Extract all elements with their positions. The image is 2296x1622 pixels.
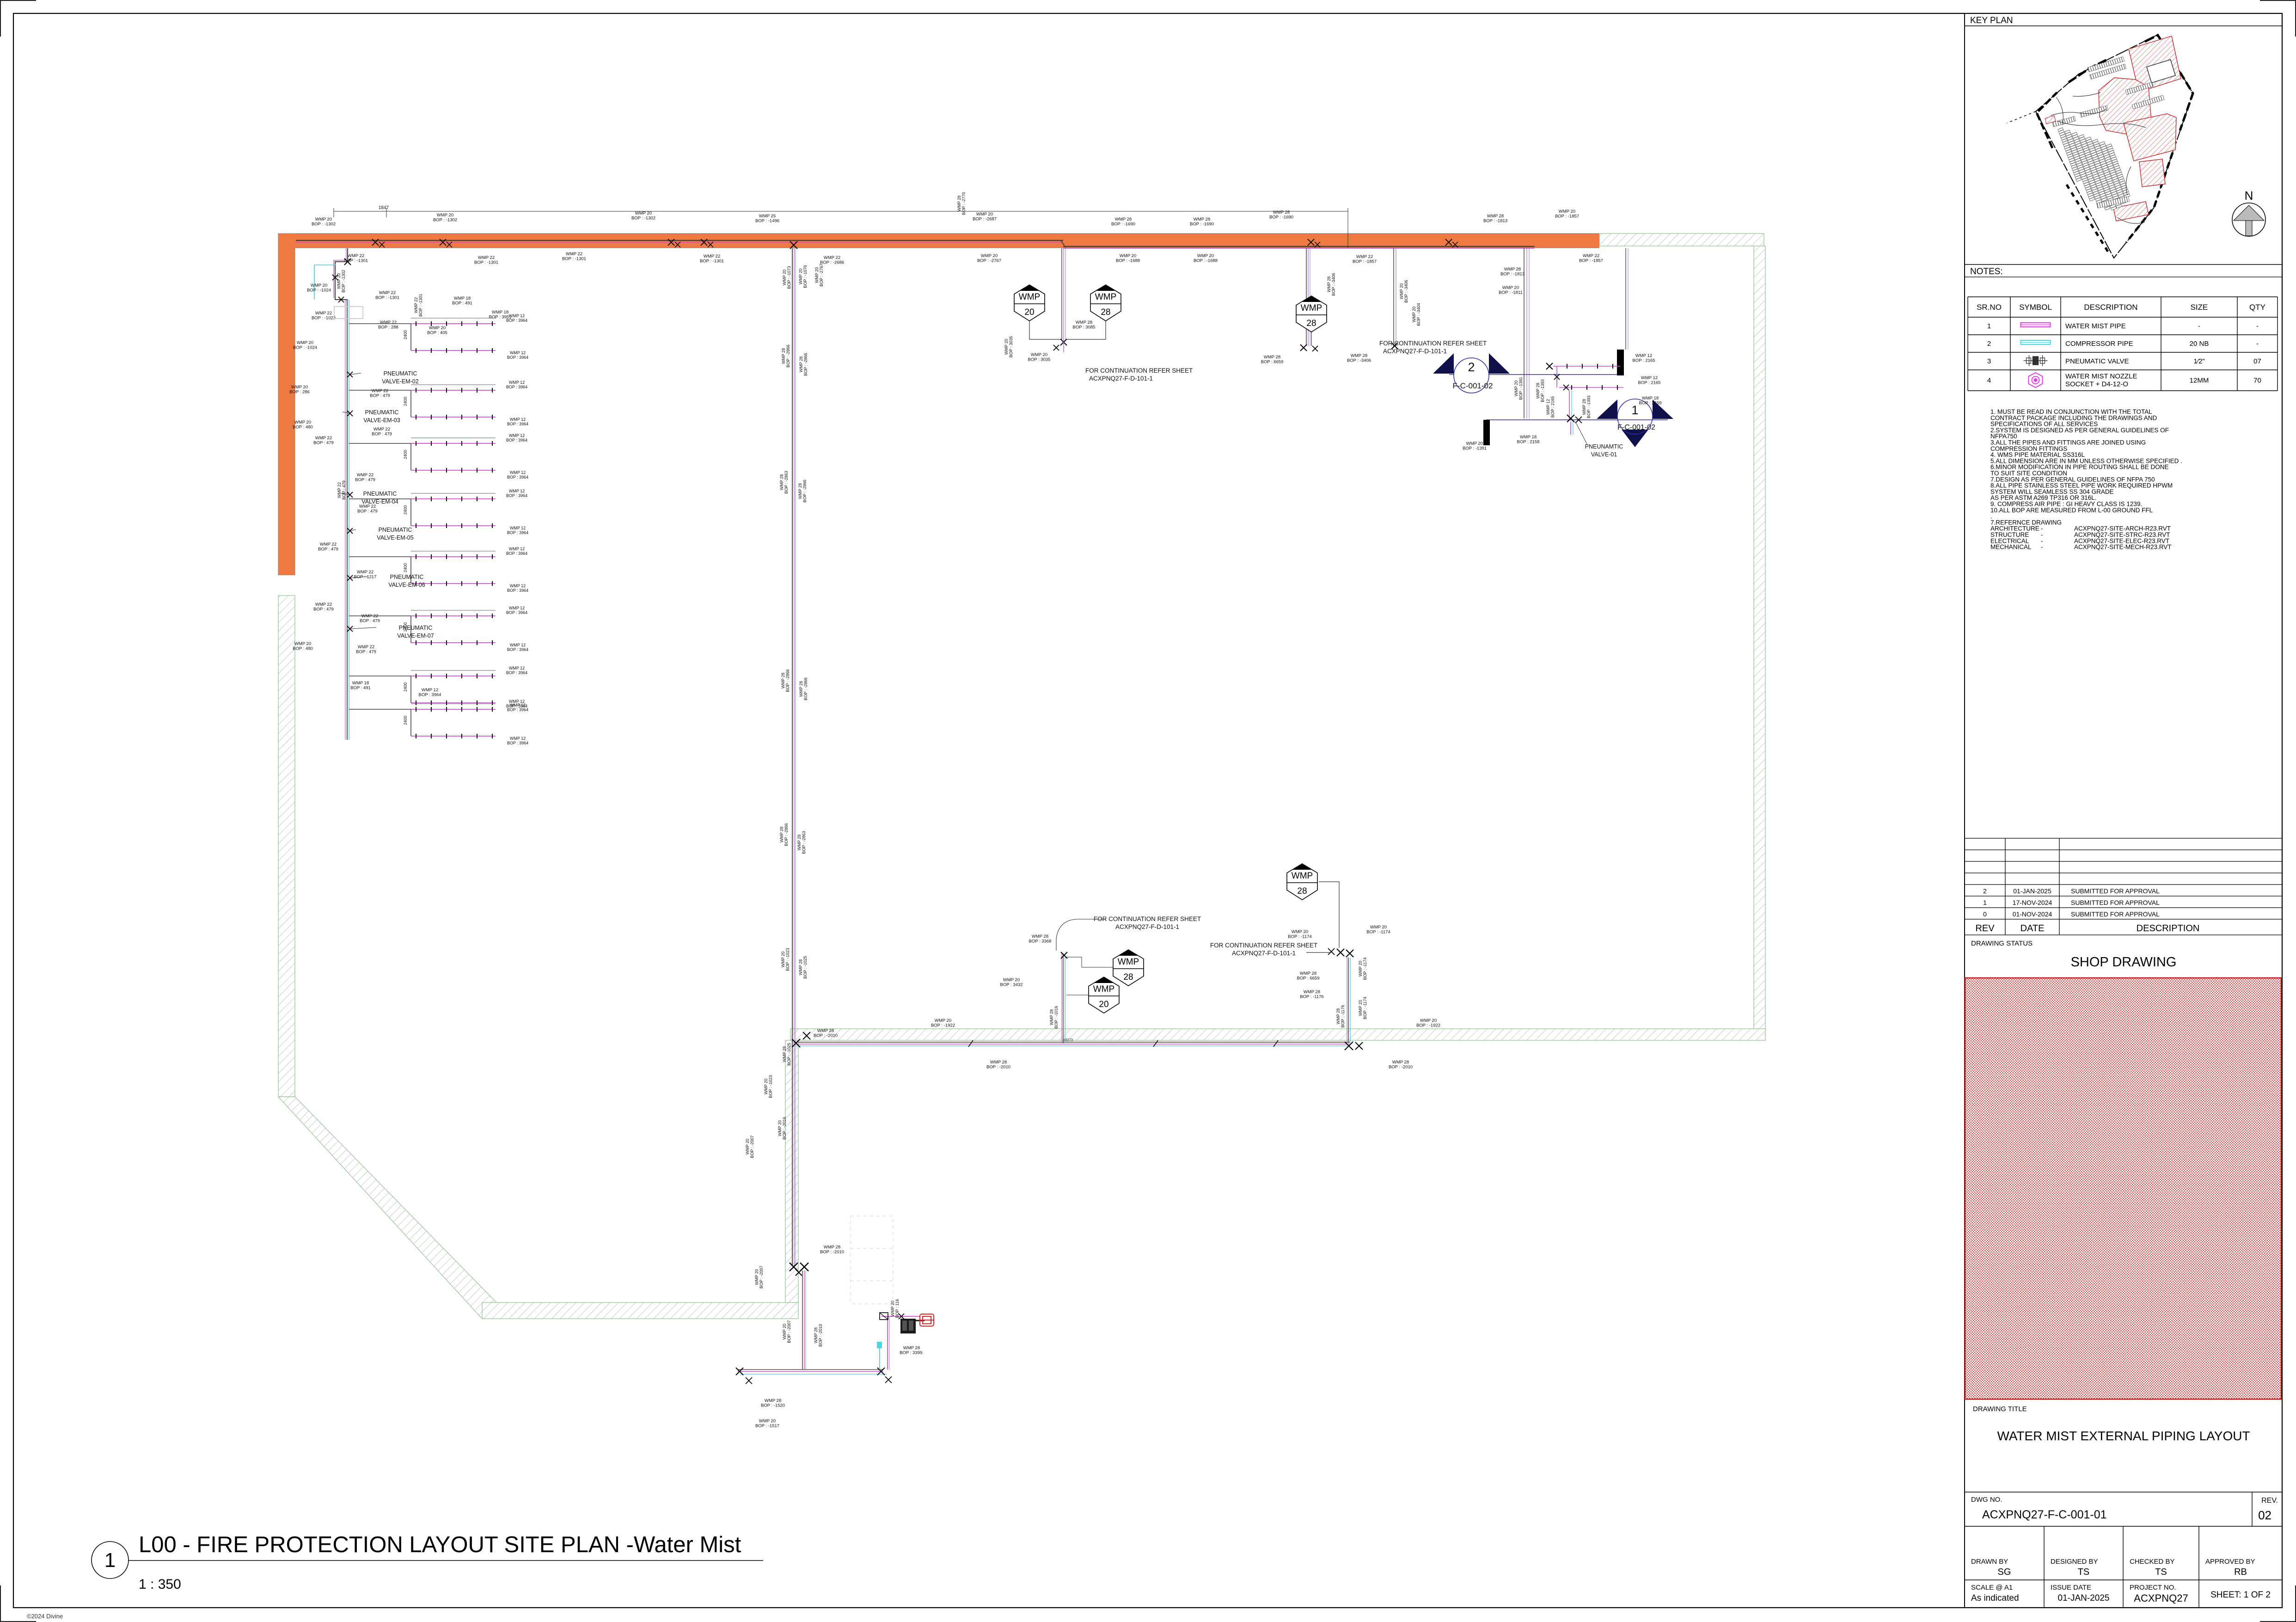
riser drop to continuation (top-center) [1061,248,1062,339]
svg-text:PNEUMATIC: PNEUMATIC [379,527,412,533]
nozzle branch cluster near valve-01 [1553,366,1620,367]
svg-text:12MM: 12MM [2190,377,2209,385]
svg-text:WMP 12BOP : 3964: WMP 12BOP : 3964 [419,688,441,698]
svg-text:FOR CONTINUATION REFER SHEET: FOR CONTINUATION REFER SHEET [1379,340,1487,347]
svg-text:ACXPNQ27: ACXPNQ27 [2134,1592,2188,1604]
corner junction piping top-left [335,248,348,300]
svg-text:MECHANICAL: MECHANICAL [1990,544,2032,551]
svg-text:WMP 22BOP : 479: WMP 22BOP : 479 [313,602,334,612]
key plan small red bits left [2045,116,2056,124]
key plan building right-mid [2124,114,2176,161]
svg-text:2: 2 [1468,360,1475,374]
junction at bottom of long riser [790,1263,798,1271]
svg-text:DATE: DATE [2020,923,2045,934]
svg-text:1 : 350: 1 : 350 [139,1577,181,1592]
svg-text:4: 4 [1987,377,1991,385]
svg-text:FOR CONTINUATION REFER SHEET: FOR CONTINUATION REFER SHEET [1094,915,1201,922]
svg-text:WMP 28BOP : 6659: WMP 28BOP : 6659 [1261,355,1284,365]
view title circle 1 [92,1542,129,1579]
svg-text:SOCKET + D4-12-O: SOCKET + D4-12-O [2065,381,2128,388]
compressor pipe symbol [2021,340,2051,344]
riser to continuation junction [1348,958,1349,1043]
WMP 20 hexagon (top) [1029,321,1061,339]
site boundary wall left (hatched) [278,596,295,1097]
key plan building central [2099,78,2151,136]
pump skid (red) [920,1314,934,1326]
svg-text:As indicated: As indicated [1971,1593,2019,1603]
svg-text:02: 02 [2258,1508,2272,1522]
dwg no row [1965,1492,2282,1493]
svg-text:WMP 28BOP : 3368: WMP 28BOP : 3368 [1029,934,1052,944]
water mist pipe symbol [2021,323,2051,327]
svg-text:©2024 Divine: ©2024 Divine [27,1613,63,1620]
svg-text:TS: TS [2155,1567,2167,1577]
svg-text:REV: REV [1975,923,1995,934]
svg-text:WMP 22BOP : 479: WMP 22BOP : 479 [356,645,376,655]
compressor unit (black) [900,1319,916,1333]
svg-text:DRAWING TITLE: DRAWING TITLE [1973,1405,2027,1413]
building wall top (hatched) [1599,233,1764,246]
svg-text:CHECKED BY: CHECKED BY [2130,1558,2175,1566]
svg-text:-: - [2198,322,2200,330]
svg-text:DESIGNED BY: DESIGNED BY [2051,1558,2098,1566]
svg-text:WMP 20BOP : -1174: WMP 20BOP : -1174 [1366,925,1390,935]
svg-text:WMP 20BOP : -1174: WMP 20BOP : -1174 [1358,997,1367,1020]
pump feed horizontal [882,1316,920,1317]
svg-text:ISSUE DATE: ISSUE DATE [2051,1584,2091,1591]
svg-text:2400: 2400 [403,563,408,572]
svg-text:-: - [2041,544,2043,551]
svg-text:2400: 2400 [403,450,408,459]
svg-text:WMP 22BOP : 479: WMP 22BOP : 479 [360,614,380,624]
long riser drop at grid 3300 [1524,248,1525,418]
svg-text:WMP 22BOP : 1217: WMP 22BOP : 1217 [354,570,377,580]
svg-text:WMP 12BOP : 2165: WMP 12BOP : 2165 [1633,353,1655,363]
svg-text:1: 1 [104,1549,116,1572]
svg-text:WMP 12BOP : 3964: WMP 12BOP : 3964 [507,736,528,745]
orange boundary wall band (left) [278,233,295,575]
svg-text:WMP: WMP [1095,292,1116,302]
svg-text:WMP 22BOP : 479: WMP 22BOP : 479 [355,473,375,483]
svg-text:WMP 22BOP : 479: WMP 22BOP : 479 [372,427,392,437]
NOTES header [1965,264,2282,265]
svg-text:WMP: WMP [1019,292,1040,302]
svg-text:PNEUMATIC: PNEUMATIC [363,491,397,497]
svg-text:20 NB: 20 NB [2190,340,2209,348]
svg-text:WATER MIST EXTERNAL PIPING LAY: WATER MIST EXTERNAL PIPING LAYOUT [1997,1429,2250,1443]
svg-text:WMP 12BOP : 3964: WMP 12BOP : 3964 [506,699,527,708]
compressed air pipe (cyan) w/ compressor box [877,1342,882,1348]
svg-text:PNEUMATIC: PNEUMATIC [399,625,433,631]
svg-text:KEY PLAN: KEY PLAN [1970,16,2013,25]
svg-text:1⁄2": 1⁄2" [2193,357,2205,365]
svg-text:WMP 28BOP : 3085: WMP 28BOP : 3085 [1073,320,1096,330]
svg-text:DESCRIPTION: DESCRIPTION [2137,923,2200,934]
svg-text:SCALE @ A1: SCALE @ A1 [1971,1584,2013,1591]
svg-text:VALVE-EM-02: VALVE-EM-02 [382,378,418,385]
svg-text:ACXPNQ27-F-D-101-1: ACXPNQ27-F-D-101-1 [1383,348,1447,355]
svg-text:WMP 22BOP : 479: WMP 22BOP : 479 [337,480,346,499]
riser up to pump skid [887,1316,888,1370]
svg-text:WMP 20BOP : 3035: WMP 20BOP : 3035 [1004,336,1013,357]
svg-text:WMP 20BOP : 480: WMP 20BOP : 480 [293,641,313,651]
pump room ghost outline [851,1216,893,1304]
svg-text:REV.: REV. [2261,1497,2278,1505]
svg-text:WMP 12BOP : 3964: WMP 12BOP : 3964 [507,350,528,360]
svg-text:01-JAN-2025: 01-JAN-2025 [2058,1593,2110,1603]
symbol table [1968,297,2278,391]
north arrow [2232,203,2265,236]
svg-text:-: - [2256,322,2259,330]
site boundary wall bottom-left (hatched) [482,1303,798,1319]
dimension ticks on bottom pipe [968,1040,973,1047]
svg-text:WMP 18BOP : 2159: WMP 18BOP : 2159 [1639,396,1662,406]
main left riser pipes [347,300,348,740]
svg-text:SHOP DRAWING: SHOP DRAWING [2071,955,2177,970]
orange boundary wall band (top) [278,233,1599,248]
svg-text:38073: 38073 [1063,1038,1073,1042]
svg-text:RB: RB [2234,1567,2247,1577]
svg-text:WMP 12BOP : 3964: WMP 12BOP : 3964 [507,470,528,479]
svg-text:WMP: WMP [1301,303,1322,313]
svg-text:2400: 2400 [403,505,408,515]
svg-text:PNEUMATIC: PNEUMATIC [365,409,399,416]
svg-text:WMP 12BOP : 3964: WMP 12BOP : 3964 [507,417,528,426]
svg-text:01-NOV-2024: 01-NOV-2024 [2013,910,2052,918]
svg-text:DRAWING STATUS: DRAWING STATUS [1971,940,2033,947]
leader to WMP 28 hexagon (bottom) [1319,882,1339,948]
water mist nozzle symbol [2029,373,2043,387]
svg-text:VALVE-EM-07: VALVE-EM-07 [397,633,434,639]
svg-text:VALVE-EM-06: VALVE-EM-06 [388,582,425,588]
svg-text:WMP 22BOP : 479: WMP 22BOP : 479 [313,436,334,446]
WMP 28 hexagon (top) [1067,321,1106,339]
svg-text:WMP 20BOP : 3035: WMP 20BOP : 3035 [1028,352,1051,362]
WMP 28 hexagon (top-right) [1311,332,1312,346]
svg-text:APPROVED BY: APPROVED BY [2205,1558,2255,1566]
svg-text:QTY: QTY [2249,303,2265,312]
riser drop (top-right) [1306,248,1307,346]
svg-text:ACXPNQ27-SITE-MECH-R23.RVT: ACXPNQ27-SITE-MECH-R23.RVT [2074,544,2172,551]
svg-text:WATER MIST NOZZLE: WATER MIST NOZZLE [2065,373,2137,381]
section flag 2 / F-C-001-02 [1449,374,1617,375]
svg-text:WMP 12BOP : 3964: WMP 12BOP : 3964 [506,606,527,615]
svg-text:PNEUMATIC: PNEUMATIC [390,574,424,580]
svg-text:WMP 20BOP : 3432: WMP 20BOP : 3432 [1000,977,1023,988]
svg-text:2400: 2400 [403,330,408,339]
svg-text:WMP 22BOP : 479: WMP 22BOP : 479 [357,504,378,514]
svg-text:28: 28 [1123,972,1133,982]
svg-text:WMP 20BOP : 116: WMP 20BOP : 116 [890,1299,900,1318]
site boundary wall diagonal (hatched) [278,1097,497,1319]
horizontal pipe in pump room [738,1369,883,1370]
pipe elbow/union fittings on top main [372,239,379,246]
svg-text:ACXPNQ27-F-D-101-1: ACXPNQ27-F-D-101-1 [1232,950,1296,957]
key plan building small lower [2139,159,2165,187]
svg-text:ACXPNQ27-F-D-101-1: ACXPNQ27-F-D-101-1 [1089,375,1153,382]
svg-text:WMP 12BOP : 3964: WMP 12BOP : 3964 [506,380,527,389]
dimension line above wall [334,208,1348,248]
corner crop marks [0,0,36,37]
svg-text:-: - [2256,340,2259,348]
revision table [1965,838,2282,935]
svg-text:WMP 12BOP : 3964: WMP 12BOP : 3964 [507,584,528,593]
svg-text:WMP 12BOP : 3964: WMP 12BOP : 3964 [507,643,528,652]
building wall bottom (hatched) [790,1029,1765,1040]
water mist main pipe WMP along top wall [296,240,1063,241]
building wall right (hatched) [1754,246,1765,1040]
key plan internal roads [2051,92,2146,223]
KEY PLAN header [1965,25,2282,26]
key plan building bottom bar [2113,202,2149,221]
red stippled status stamp area [1965,978,2281,1399]
svg-text:SG: SG [1998,1567,2011,1577]
svg-text:DWG NO.: DWG NO. [1971,1496,2002,1504]
site boundary wall vertical connector (hatched) [785,1040,798,1303]
svg-text:WATER MIST PIPE: WATER MIST PIPE [2065,322,2126,330]
svg-text:70: 70 [2253,377,2261,385]
svg-text:WMP 12BOP : 2165: WMP 12BOP : 2165 [1638,375,1661,386]
svg-text:WMP 12BOP : 3964: WMP 12BOP : 3964 [506,489,527,498]
svg-text:SUBMITTED FOR APPROVAL: SUBMITTED FOR APPROVAL [2071,910,2160,918]
svg-text:WMP 12BOP : 3964: WMP 12BOP : 3964 [506,433,527,442]
svg-text:1: 1 [1987,322,1991,330]
svg-text:07: 07 [2253,357,2261,365]
svg-text:WMP 20BOP : -1811: WMP 20BOP : -1811 [1499,285,1522,295]
svg-text:2.SYSTEM IS DESIGNED AS PER GE: 2.SYSTEM IS DESIGNED AS PER GENERAL GUID… [1990,427,2169,434]
svg-text:F-C-001-02: F-C-001-02 [1453,381,1493,390]
bottom main pipe below building wall [794,1042,1350,1043]
section flag 1 / F-C-001-02 [1486,419,1668,420]
feed pipes to bar [1625,248,1626,350]
svg-text:WMP 22BOP : 288: WMP 22BOP : 288 [378,320,398,330]
svg-text:SR.NO: SR.NO [1977,303,2002,312]
svg-text:01-JAN-2025: 01-JAN-2025 [2013,887,2051,895]
svg-text:WMP 12BOP : 2165: WMP 12BOP : 2165 [1546,396,1555,418]
svg-text:SYMBOL: SYMBOL [2019,303,2052,312]
svg-text:1: 1 [1983,899,1987,906]
key plan parking rows [2052,57,2164,127]
svg-text:ACXPNQ27-F-D-101-1: ACXPNQ27-F-D-101-1 [1115,923,1179,930]
svg-text:28: 28 [1101,307,1110,317]
svg-text:ACXPNQ27-F-C-001-01: ACXPNQ27-F-C-001-01 [1982,1508,2107,1521]
pneumatic valve symbol [2024,355,2048,366]
signature rows [1965,1526,2282,1608]
svg-text:PNEUMATIC VALVE: PNEUMATIC VALVE [2065,357,2129,365]
svg-text:SHEET: 1 OF 2: SHEET: 1 OF 2 [2210,1590,2271,1600]
svg-text:2: 2 [1983,887,1987,895]
svg-text:WMP 20BOP : 480: WMP 20BOP : 480 [293,420,313,430]
svg-text:WMP 12BOP : 3964: WMP 12BOP : 3964 [506,666,527,675]
svg-text:VALVE-EM-03: VALVE-EM-03 [363,417,400,424]
svg-text:WMP 18BOP : 2158: WMP 18BOP : 2158 [1517,435,1540,445]
key plan site boundary [2036,35,2193,258]
svg-text:WMP 12BOP : 3964: WMP 12BOP : 3964 [506,313,527,323]
svg-text:20: 20 [1024,307,1034,317]
faint equipment outline [334,307,363,319]
svg-text:L00 - FIRE PROTECTION LAYOUT S: L00 - FIRE PROTECTION LAYOUT SITE PLAN -… [139,1532,741,1557]
svg-text:DESCRIPTION: DESCRIPTION [2084,303,2137,312]
svg-text:WMP 28BOP : -1176: WMP 28BOP : -1176 [1336,1005,1345,1028]
svg-text:17-NOV-2024: 17-NOV-2024 [2013,899,2052,906]
svg-text:WMP 12BOP : 3964: WMP 12BOP : 3964 [506,547,527,556]
svg-text:20: 20 [1099,1000,1108,1009]
svg-text:FOR CONTINUATION REFER SHEET: FOR CONTINUATION REFER SHEET [1210,942,1317,949]
svg-text:VALVE-EM-05: VALVE-EM-05 [377,535,413,541]
key plan building top-right [2129,36,2181,92]
svg-text:PNEUMATIC: PNEUMATIC [384,370,417,377]
svg-text:1: 1 [1631,403,1638,417]
pipe down to pump room [802,1271,803,1370]
svg-text:SUBMITTED FOR APPROVAL: SUBMITTED FOR APPROVAL [2071,899,2160,906]
svg-text:WMP 20BOP : -1174: WMP 20BOP : -1174 [1288,929,1311,940]
svg-text:F-C-001-02: F-C-001-02 [1617,424,1655,431]
svg-text:WMP 22BOP : 479: WMP 22BOP : 479 [318,542,338,552]
svg-text:28: 28 [1297,886,1307,896]
svg-text:2400: 2400 [403,397,408,406]
svg-text:3: 3 [1987,357,1991,365]
inline valve fitting [880,1313,888,1320]
svg-text:1847: 1847 [379,205,389,210]
svg-text:PNEUNAMTIC: PNEUNAMTIC [1585,443,1623,450]
svg-text:28: 28 [1306,319,1316,328]
svg-text:WMP 28BOP : 3399.: WMP 28BOP : 3399. [900,1346,924,1356]
svg-text:WMP 12BOP : 3964: WMP 12BOP : 3964 [507,526,528,535]
svg-text:PROJECT NO.: PROJECT NO. [2130,1584,2176,1591]
svg-text:WMP: WMP [1093,984,1114,994]
svg-text:SIZE: SIZE [2191,303,2208,312]
svg-text:WMP: WMP [1292,871,1313,881]
svg-text:TS: TS [2078,1567,2090,1577]
svg-text:SUBMITTED FOR APPROVAL: SUBMITTED FOR APPROVAL [2071,887,2160,895]
svg-text:2400: 2400 [403,682,408,692]
svg-text:COMPRESSOR PIPE: COMPRESSOR PIPE [2065,340,2133,348]
branch groups with water-mist nozzle rows [349,324,411,350]
svg-text:2: 2 [1987,340,1991,348]
title block left border [1964,13,1965,1608]
svg-text:WMP 18BOP : 491: WMP 18BOP : 491 [350,681,371,691]
long vertical main pipe run [792,248,793,1266]
svg-text:WMP 20BOP : -1174: WMP 20BOP : -1174 [1358,958,1367,980]
svg-text:WMP 28BOP : 6659: WMP 28BOP : 6659 [1297,971,1320,981]
svg-text:NOTES:: NOTES: [1970,267,2003,276]
stub riser with WMP hexagons (bottom center) [1063,953,1064,1043]
svg-text:DRAWN BY: DRAWN BY [1971,1558,2008,1566]
svg-text:WMP: WMP [1118,957,1139,967]
svg-text:FOR CONTINUATION REFER SHEET: FOR CONTINUATION REFER SHEET [1085,367,1193,374]
svg-text:0: 0 [1983,910,1987,918]
svg-text:10.ALL BOP ARE MEASURED FROM L: 10.ALL BOP ARE MEASURED FROM L-00 GROUND… [1990,507,2153,514]
svg-text:WMP 20BOP : 286: WMP 20BOP : 286 [289,385,310,395]
svg-text:WMP 18BOP : 491: WMP 18BOP : 491 [452,296,472,306]
svg-text:WMP 28BOP : -1176: WMP 28BOP : -1176 [1300,989,1323,1000]
svg-text:VALVE-01: VALVE-01 [1591,451,1617,458]
svg-text:N: N [2245,189,2253,203]
svg-text:2400: 2400 [403,716,408,725]
riser drop at grid 3018 [1393,248,1394,348]
svg-text:WMP 20BOP : 405: WMP 20BOP : 405 [427,326,447,336]
